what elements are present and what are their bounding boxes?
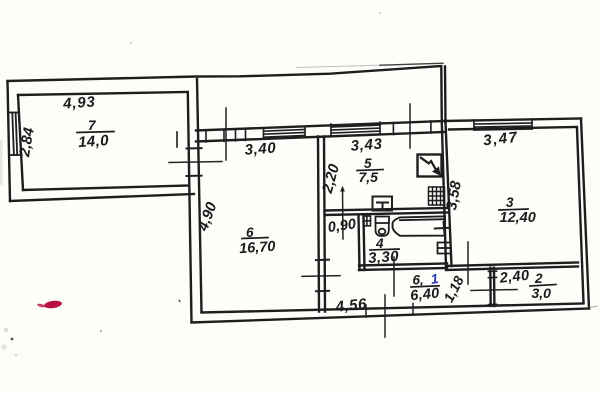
wall between middle and room3 left line <box>442 123 446 267</box>
wall between middle and room3 right line <box>446 123 452 267</box>
wall bathroom left line b <box>364 216 365 270</box>
svg-text:3,0: 3,0 <box>532 285 552 301</box>
fraction bar room5 <box>357 170 383 171</box>
wall top inner above room 7 <box>18 92 188 95</box>
dim tick bottom wall b <box>412 304 414 316</box>
wall bathroom left line a <box>359 216 360 270</box>
gas stove grid <box>429 187 445 205</box>
wall right outer <box>581 119 589 309</box>
fraction bar room4 <box>370 249 399 250</box>
svg-text:3: 3 <box>506 195 514 210</box>
door jamb ticks room6-corridor wall <box>316 260 329 292</box>
wall main vertical right line <box>197 79 202 312</box>
svg-text:6,: 6, <box>413 273 424 288</box>
wall ticks on central top band <box>177 121 431 147</box>
fraction bar room7 <box>77 132 114 133</box>
wall central top band upper line <box>196 121 444 131</box>
wall room6 right left-line <box>318 137 319 312</box>
wall room6 right right-line <box>324 137 325 312</box>
window room3 top (3.47) <box>474 119 532 130</box>
kitchen sink <box>373 197 393 211</box>
wall top faint outer trace <box>297 65 380 67</box>
bathtub <box>392 216 445 236</box>
dim line 3.30 <box>393 257 395 296</box>
door jamb ticks room2 wall <box>488 271 496 304</box>
window room7 left <box>9 113 22 156</box>
wall vertical upper right connector right line <box>444 67 447 123</box>
svg-text:16,70: 16,70 <box>239 239 276 257</box>
svg-text:3,43: 3,43 <box>350 136 383 155</box>
svg-text:3,30: 3,30 <box>368 248 400 267</box>
vent square with arrow <box>418 155 442 177</box>
dim tick left of room6 wall <box>302 275 340 278</box>
wall main vertical left line <box>188 92 192 322</box>
wall bathroom bottom lower <box>359 268 447 270</box>
dim line 3.43/3.47 divider <box>409 104 411 148</box>
svg-text:12,40: 12,40 <box>500 210 536 226</box>
bathtub faucet <box>435 222 449 235</box>
wall room3 top upper line <box>444 119 581 122</box>
wall right inner <box>577 129 584 303</box>
wall room2 left line a <box>489 268 492 306</box>
window room5 top (3.43) <box>331 122 380 136</box>
scan smudge left edge <box>0 140 3 185</box>
wall bathroom bottom upper <box>359 264 447 266</box>
wall room3 top lower line <box>449 127 577 130</box>
dim tick room7 wall <box>169 162 222 163</box>
fraction bar room3 <box>499 209 528 210</box>
svg-text:4,56: 4,56 <box>334 295 368 315</box>
wall room5 bottom upper line <box>325 208 447 211</box>
dim line 2.40 <box>471 290 517 291</box>
wall room3 bottom upper <box>446 263 578 267</box>
dim line 4.56/6.40 divider <box>384 295 386 337</box>
wall top outer (upper block) <box>8 66 442 81</box>
door jamb grid bathroom <box>363 216 370 226</box>
window room6 top (3.40) <box>264 127 306 139</box>
fraction bar corridor <box>411 286 439 287</box>
svg-text:4,93: 4,93 <box>62 93 97 112</box>
towel bracket room3 <box>438 243 451 254</box>
red ink mark <box>37 300 63 310</box>
svg-text:6,40: 6,40 <box>409 285 440 304</box>
wall vertical upper right connector left line <box>440 67 443 123</box>
door jamb ticks room7-room6 wall <box>187 148 202 176</box>
wall room5 bottom lower line <box>325 213 447 216</box>
svg-text:2,40: 2,40 <box>498 268 530 287</box>
wall central top band lower line <box>196 132 444 142</box>
wall room2 left line b <box>493 268 496 306</box>
svg-text:2: 2 <box>534 271 543 286</box>
dim line 3.40 left <box>225 108 227 160</box>
svg-text:3,40: 3,40 <box>244 140 277 159</box>
fraction bar room6 <box>242 238 268 239</box>
toilet <box>376 217 390 237</box>
wall bottom inner room 7 <box>23 186 189 191</box>
wall bottom outer room 7 <box>10 194 194 201</box>
svg-text:14,0: 14,0 <box>78 132 110 151</box>
dim tick bottom wall a <box>365 305 367 317</box>
wall left inner of room 7 <box>18 95 23 190</box>
dim line 1.18 <box>467 242 469 284</box>
svg-text:7,5: 7,5 <box>359 169 379 185</box>
fraction bar room2 <box>530 285 556 287</box>
wall left outer of room 7 <box>8 81 11 201</box>
wall bottom inner <box>202 304 584 313</box>
dimension lines <box>169 104 517 337</box>
wall bottom outer <box>192 309 590 323</box>
wall room3 bottom lower <box>446 267 578 271</box>
dim line 0.90 <box>342 188 345 239</box>
